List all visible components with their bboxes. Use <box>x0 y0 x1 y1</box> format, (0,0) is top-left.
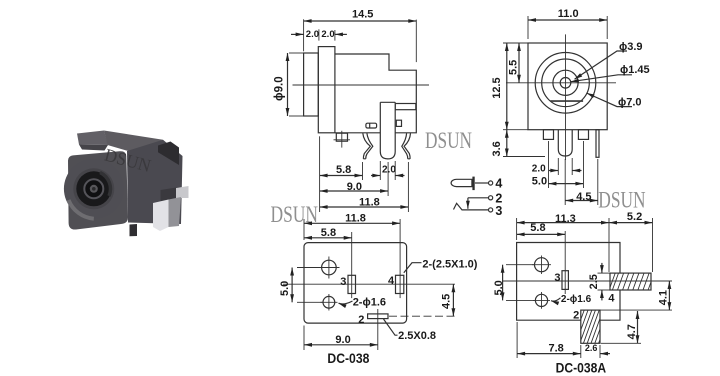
svg-text:4.5: 4.5 <box>576 191 591 203</box>
collar ring <box>318 47 335 133</box>
svg-text:9.0: 9.0 <box>335 334 350 346</box>
svg-text:5.5: 5.5 <box>508 60 520 75</box>
center pin <box>380 102 395 159</box>
svg-text:3: 3 <box>554 272 560 284</box>
photo bore crescent <box>100 173 110 197</box>
photo barrel rim highlight <box>69 200 94 219</box>
terminal 3 <box>489 208 493 212</box>
photo metal lug bright <box>153 200 169 232</box>
hole upper <box>322 260 337 275</box>
svg-text:5.8: 5.8 <box>336 164 351 176</box>
dim 2.0 2.0 <box>318 29 320 40</box>
pin 2 hatched <box>581 310 600 343</box>
photo top fin <box>77 131 108 146</box>
svg-text:DSUN: DSUN <box>425 128 472 153</box>
dim 5.0 A <box>506 264 534 266</box>
dim 14.5 <box>303 19 305 51</box>
photo metal dark leg <box>161 187 180 206</box>
dim 2.0 side <box>379 161 381 180</box>
svg-text:2.0: 2.0 <box>532 163 546 174</box>
rear top band <box>395 104 416 110</box>
tab left <box>543 130 553 140</box>
dim 4.1 <box>652 280 672 282</box>
dim 12.5 <box>503 42 528 44</box>
hole upper A <box>535 258 549 272</box>
dim 11.3 <box>516 218 518 240</box>
body outline <box>335 54 416 133</box>
body <box>304 243 407 324</box>
svg-text:2-(2.5X1.0): 2-(2.5X1.0) <box>422 259 477 271</box>
flange plate <box>304 53 319 116</box>
front center pin <box>558 130 572 156</box>
terminal 4 <box>489 181 493 185</box>
svg-text:4: 4 <box>608 293 615 305</box>
svg-text:ϕ9.0: ϕ9.0 <box>274 76 286 101</box>
hole lower A <box>535 294 547 306</box>
mounting peg <box>336 133 347 141</box>
thin pin <box>596 130 599 158</box>
svg-text:4: 4 <box>388 275 395 287</box>
dim 4.7 <box>601 342 641 344</box>
svg-text:11.0: 11.0 <box>558 8 579 20</box>
leader 2-phi1.6 A <box>551 298 561 301</box>
square body <box>528 43 607 130</box>
photo fin bevel <box>79 145 108 151</box>
leader phi1.45 <box>571 75 632 82</box>
dim 5.5 <box>518 43 520 83</box>
body A <box>517 243 620 321</box>
pin 3 pad <box>348 275 356 293</box>
dim 11.8 side <box>407 162 409 212</box>
svg-text:12.5: 12.5 <box>491 77 503 98</box>
svg-text:2.5X0.8: 2.5X0.8 <box>398 330 436 342</box>
leader 2.5X0.8 <box>384 319 398 335</box>
dim 5.0 front <box>547 141 549 188</box>
svg-text:4.5: 4.5 <box>441 294 453 309</box>
svg-text:5.8: 5.8 <box>321 227 336 239</box>
pin 2 pad <box>368 314 388 319</box>
photo right side face <box>127 140 183 224</box>
chord bar <box>550 100 583 102</box>
dim 2.5 A <box>598 272 611 274</box>
pin 4 pad <box>396 275 404 293</box>
dim phi9.0 <box>289 52 304 54</box>
svg-text:2: 2 <box>358 314 364 326</box>
lug right <box>402 133 411 159</box>
svg-text:2: 2 <box>573 310 579 322</box>
svg-text:2.0: 2.0 <box>321 29 334 40</box>
dim 4.5 front <box>564 159 566 205</box>
photo barrel ring <box>73 168 114 209</box>
wire terminal 2 <box>468 197 489 199</box>
svg-text:3: 3 <box>340 276 346 288</box>
photo center hub <box>84 179 103 198</box>
svg-text:11.8: 11.8 <box>359 196 380 208</box>
dim 2.0 front <box>557 158 559 175</box>
svg-text:5.8: 5.8 <box>530 222 545 234</box>
svg-text:4.1: 4.1 <box>658 290 670 305</box>
photo front face <box>68 151 128 229</box>
photo center pin <box>90 185 98 193</box>
svg-text:11.8: 11.8 <box>345 213 366 225</box>
dim 5.0 left <box>297 267 321 269</box>
pin 3 pad A <box>562 271 568 290</box>
dim 4.5 right <box>452 284 454 316</box>
slot pill <box>366 123 377 128</box>
dim 3.6 <box>503 156 545 158</box>
svg-text:ϕ1.45: ϕ1.45 <box>620 64 650 76</box>
leader phi7.0 <box>587 93 633 107</box>
svg-text:14.5: 14.5 <box>352 9 373 21</box>
svg-text:2.6: 2.6 <box>585 343 598 353</box>
tab right <box>578 130 588 140</box>
svg-text:2.0: 2.0 <box>382 164 396 175</box>
svg-text:11.3: 11.3 <box>555 213 576 225</box>
centerline <box>293 84 430 86</box>
pin 4 hatched <box>610 273 651 290</box>
photo metal lug shade <box>169 197 182 227</box>
photo metal finger <box>176 186 189 198</box>
leader phi3.9 <box>575 51 628 79</box>
wire terminal 3 with contact <box>454 203 489 210</box>
dim 5.8 A <box>517 233 566 235</box>
svg-text:ϕ7.0: ϕ7.0 <box>618 96 642 108</box>
svg-text:3.6: 3.6 <box>491 141 503 156</box>
svg-text:5.0: 5.0 <box>532 176 547 188</box>
svg-text:2-ϕ1.6: 2-ϕ1.6 <box>561 294 592 305</box>
photo barrel bore <box>76 171 111 206</box>
photo barrel outer <box>64 159 124 219</box>
dim 5.8 bottom <box>304 237 352 239</box>
photo foot <box>130 224 138 236</box>
symbol plate pin4 <box>472 177 474 191</box>
dim 11.8 bottom <box>303 219 305 240</box>
dim 9.0 side <box>387 162 389 196</box>
photo top face <box>104 131 163 154</box>
dim 5.8 side <box>319 136 321 212</box>
svg-text:7.8: 7.8 <box>549 343 564 355</box>
svg-text:2.0: 2.0 <box>306 29 319 40</box>
leader 2-(2.5X1.0) <box>404 263 422 273</box>
dim 7.8 <box>516 322 518 358</box>
dim 9.0 bottom <box>303 326 305 351</box>
circles <box>535 53 596 114</box>
dim 5.2 <box>652 218 654 272</box>
lug left <box>363 133 373 159</box>
svg-text:DSUN: DSUN <box>598 188 646 213</box>
svg-text:2.5: 2.5 <box>588 274 600 289</box>
centerlines <box>565 34 567 160</box>
svg-text:4: 4 <box>495 177 502 191</box>
rear small square <box>396 120 401 126</box>
svg-text:2-ϕ1.6: 2-ϕ1.6 <box>353 296 386 308</box>
wire to terminal 4 <box>475 182 489 184</box>
svg-text:5.0: 5.0 <box>493 280 505 295</box>
svg-text:5.0: 5.0 <box>279 281 291 296</box>
center row line A <box>503 280 656 282</box>
leader 2-phi1.6 <box>339 301 353 304</box>
symbol center pin barrel <box>451 179 472 186</box>
svg-text:DSUN: DSUN <box>271 202 319 227</box>
dim 11.0 <box>527 16 529 39</box>
dim 2.6 <box>600 353 610 355</box>
svg-text:4.7: 4.7 <box>626 324 638 339</box>
svg-text:3: 3 <box>495 204 502 218</box>
svg-text:DC-038A: DC-038A <box>556 360 607 376</box>
svg-text:ϕ3.9: ϕ3.9 <box>619 41 643 53</box>
hole lower <box>323 296 335 308</box>
terminal 2 <box>489 196 493 200</box>
photo rear fin <box>158 142 179 166</box>
center row line <box>283 283 455 285</box>
svg-text:DC-038: DC-038 <box>327 350 369 366</box>
svg-text:9.0: 9.0 <box>347 181 362 193</box>
